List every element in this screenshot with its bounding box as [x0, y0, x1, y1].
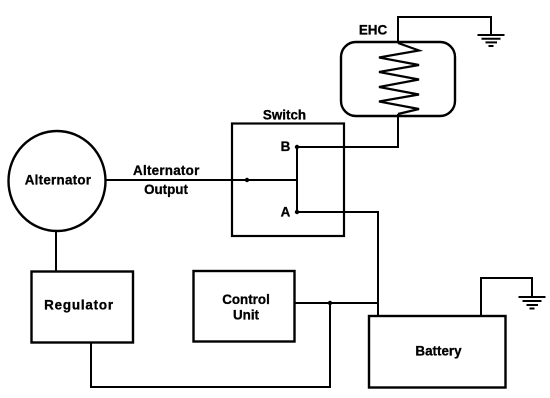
- control unit box: [194, 271, 295, 342]
- svg-text:Output: Output: [144, 182, 188, 197]
- wire control unit to battery branch: [294, 302, 378, 304]
- svg-text:Unit: Unit: [233, 308, 260, 323]
- battery box: [369, 316, 506, 388]
- wire alternator to regulator: [55, 230, 57, 272]
- svg-text:EHC: EHC: [359, 23, 388, 38]
- wire regulator to junction (bottom run): [91, 302, 330, 387]
- svg-text:Alternator: Alternator: [133, 163, 200, 178]
- switch S1 box: [232, 124, 344, 237]
- svg-text:A: A: [281, 205, 291, 220]
- svg-text:Alternator: Alternator: [25, 173, 92, 188]
- EHC housing: [341, 42, 455, 116]
- wire battery to ground: [481, 278, 532, 315]
- wire terminal A to battery: [297, 212, 378, 315]
- svg-text:Battery: Battery: [415, 344, 462, 359]
- ground (battery, right): [519, 297, 546, 309]
- wire switch common pole: [296, 146, 298, 213]
- svg-text:Switch: Switch: [263, 108, 306, 123]
- switch terminal B: [295, 145, 299, 149]
- svg-text:Control: Control: [222, 292, 270, 307]
- switch terminal A: [295, 210, 299, 214]
- svg-text:B: B: [281, 139, 291, 154]
- wire alternator output: [105, 179, 297, 181]
- junction on alternator output wire: [245, 178, 249, 182]
- regulator box: [32, 272, 134, 343]
- EHC heater coil: [379, 43, 419, 114]
- alternator: [9, 131, 106, 231]
- ground (EHC, top right): [478, 35, 505, 46]
- svg-text:Regulator: Regulator: [44, 298, 114, 313]
- wire terminal B to EHC: [297, 114, 398, 147]
- junction control unit / regulator wire: [328, 301, 332, 305]
- wire EHC to ground: [398, 17, 491, 43]
